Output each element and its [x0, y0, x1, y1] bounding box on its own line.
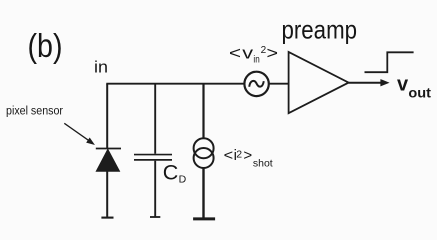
svg-text:(b): (b) [28, 27, 63, 64]
svg-text:shot: shot [253, 158, 273, 169]
svg-text:pixel sensor: pixel sensor [6, 104, 63, 118]
svg-text:C: C [163, 160, 179, 184]
svg-text:preamp: preamp [282, 15, 358, 45]
svg-text:>: > [243, 147, 252, 164]
svg-text:in: in [253, 55, 259, 66]
svg-text:<: < [224, 147, 234, 164]
svg-text:>: > [267, 43, 279, 62]
svg-text:D: D [179, 173, 187, 185]
svg-text:v: v [242, 43, 253, 62]
svg-text:v: v [397, 74, 409, 96]
svg-text:in: in [94, 58, 108, 77]
svg-text:<: < [229, 43, 241, 62]
svg-text:2: 2 [236, 149, 242, 161]
svg-text:out: out [408, 84, 431, 100]
